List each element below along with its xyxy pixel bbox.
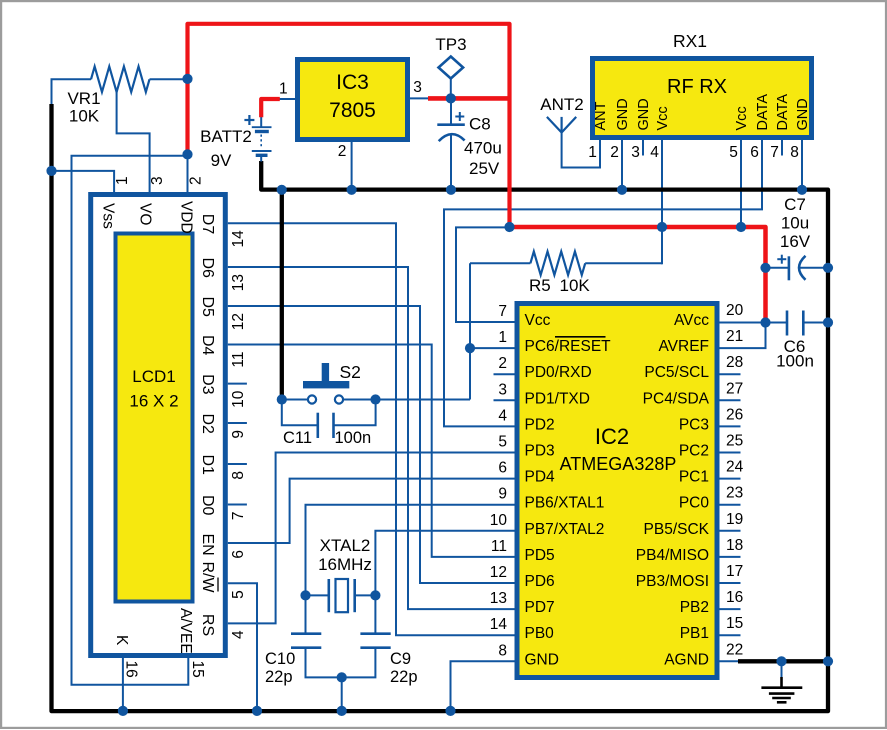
svg-text:3: 3 <box>498 381 507 398</box>
svg-text:4: 4 <box>230 630 247 639</box>
svg-text:PD2: PD2 <box>525 416 555 433</box>
svg-text:GND: GND <box>525 651 559 668</box>
svg-text:16V: 16V <box>780 232 811 251</box>
svg-text:AVcc: AVcc <box>674 312 709 329</box>
wire C10 bottom to junction <box>306 648 342 678</box>
svg-text:16: 16 <box>123 661 140 678</box>
LCD1 outer box <box>91 195 226 656</box>
wire RF RX pin 3 stub <box>642 139 644 156</box>
svg-text:15: 15 <box>726 615 743 632</box>
svg-text:D5: D5 <box>199 297 216 318</box>
ground symbol stem upper (blue) <box>781 661 783 677</box>
wire +5V node to LCD A/VEE pin 15 <box>72 156 189 685</box>
svg-text:RF RX: RF RX <box>667 76 727 98</box>
svg-text:GND: GND <box>636 98 652 130</box>
svg-text:VDD: VDD <box>178 201 195 234</box>
svg-text:Vcc: Vcc <box>525 312 551 329</box>
node LCD VDD / +5V <box>182 149 192 159</box>
svg-text:8: 8 <box>790 144 799 161</box>
svg-text:PC6/RESET: PC6/RESET <box>525 338 612 355</box>
node C7+ <box>760 263 770 273</box>
svg-text:C11: C11 <box>283 429 312 447</box>
svg-text:10K: 10K <box>69 107 100 126</box>
svg-text:ANT: ANT <box>593 101 609 130</box>
wire C8 top lead <box>450 98 452 124</box>
svg-text:13: 13 <box>490 590 507 607</box>
svg-text:3: 3 <box>413 79 422 96</box>
svg-text:3: 3 <box>631 144 640 161</box>
wire IC2 pin 27 PC4/SDA stub <box>720 399 741 401</box>
svg-text:8: 8 <box>498 642 507 659</box>
svg-text:19: 19 <box>726 511 743 528</box>
svg-text:AGND: AGND <box>664 651 709 668</box>
node C6 / GND rail <box>823 317 833 327</box>
node LCD Vss / GND <box>46 166 56 176</box>
+5V red wire: top loop from IC3 output to LCD VDD / VR1 <box>188 24 510 227</box>
wire LCD EN pin 6 to IC2 PD4 pin 6 <box>228 479 515 543</box>
svg-text:C8: C8 <box>469 115 491 134</box>
svg-text:K: K <box>113 635 130 646</box>
potentiometer VR1 <box>91 67 150 93</box>
node VR1 / +5V <box>182 74 192 84</box>
svg-text:PB0: PB0 <box>525 625 555 642</box>
wire crystal cap junction to ground bus <box>341 677 343 711</box>
svg-text:12: 12 <box>490 564 507 581</box>
svg-text:IC2: IC2 <box>595 424 629 449</box>
node C8 / GND bus <box>446 185 456 195</box>
svg-text:C10: C10 <box>265 650 295 668</box>
svg-text:14: 14 <box>490 616 508 633</box>
svg-text:5: 5 <box>230 590 247 599</box>
+5V red wire: IC3 pin 3 to TP3 node <box>428 96 512 101</box>
svg-text:PC3: PC3 <box>679 416 709 433</box>
test point TP3 diamond <box>439 57 464 79</box>
node RF pin2 / GND bus <box>617 185 627 195</box>
RX1 RF RX receiver module box <box>593 59 812 138</box>
svg-text:10u: 10u <box>781 214 809 233</box>
wire IC2 pin 20 AVcc to +5V <box>720 322 766 324</box>
svg-text:17: 17 <box>726 563 743 580</box>
svg-text:PD0/RXD: PD0/RXD <box>525 364 592 381</box>
svg-text:26: 26 <box>726 406 743 423</box>
wire S2 right contact to RESET junction <box>376 399 471 401</box>
svg-text:25V: 25V <box>469 159 500 178</box>
wire LCD D4 pin 11 to IC2 PD5 pin 11 <box>228 345 515 557</box>
capacitor C7 10u polarized <box>788 256 791 280</box>
wire IC2 pin 1 PC6/RESET stub to junction <box>470 347 515 349</box>
node RF pin8 / GND bus <box>797 185 807 195</box>
wire S2 left contact to ground bus (black) <box>280 190 284 400</box>
svg-text:PB6/XTAL1: PB6/XTAL1 <box>525 495 605 512</box>
svg-text:5: 5 <box>498 434 507 451</box>
svg-text:PD5: PD5 <box>525 547 555 564</box>
svg-text:13: 13 <box>230 274 247 291</box>
svg-text:D2: D2 <box>199 414 216 435</box>
node AGND / GND rail <box>823 656 833 666</box>
capacitor C11 100n <box>282 400 318 426</box>
wire LCD D3 pin 10 stub <box>228 383 247 385</box>
svg-text:VO: VO <box>137 203 154 225</box>
node IC2 GND / GND bus <box>445 706 455 716</box>
svg-text:11: 11 <box>491 538 507 555</box>
capacitor C9 22p <box>360 632 390 635</box>
svg-text:D1: D1 <box>199 455 216 476</box>
svg-text:5: 5 <box>729 144 738 161</box>
svg-text:BATT2: BATT2 <box>200 127 252 146</box>
svg-text:16: 16 <box>726 589 743 606</box>
svg-text:12: 12 <box>230 313 247 330</box>
svg-text:7: 7 <box>230 512 247 521</box>
svg-text:16 X 2: 16 X 2 <box>129 392 178 411</box>
ground symbol <box>780 677 783 688</box>
wire IC2 pin 8 GND to ground bus <box>451 661 515 711</box>
IC3 7805 voltage regulator box <box>298 60 408 140</box>
svg-text:PC4/SDA: PC4/SDA <box>643 390 710 407</box>
svg-text:Vcc: Vcc <box>655 106 671 130</box>
wire LCD D5 pin 12 to IC2 PD6 pin 12 <box>228 306 515 583</box>
svg-text:23: 23 <box>726 485 743 502</box>
svg-text:2: 2 <box>498 355 507 372</box>
wire LCD RW pin 5 to ground bus <box>228 583 257 711</box>
svg-text:PB2: PB2 <box>680 599 709 616</box>
svg-text:D7: D7 <box>199 214 216 235</box>
svg-text:9: 9 <box>230 430 247 439</box>
svg-text:18: 18 <box>726 537 743 554</box>
wire C6 right lead to ground rail <box>803 322 827 324</box>
svg-text:PB1: PB1 <box>680 625 709 642</box>
wire IC2 pin 22 AGND stub <box>720 660 741 662</box>
+5V red wire: horizontal rail to C7 and AVcc <box>510 227 766 323</box>
wire IC2 pin 9 PB6/XTAL1 to crystal left <box>306 505 515 634</box>
svg-text:AVREF: AVREF <box>658 338 709 355</box>
svg-text:1: 1 <box>588 144 597 161</box>
LCD1 inner display area <box>116 234 193 602</box>
svg-text:S2: S2 <box>340 362 361 382</box>
wire RF RX pin 4 Vcc down to R5 right wire <box>661 139 663 264</box>
wire IC2 pin 25 PC2 stub <box>720 452 741 454</box>
svg-text:RX1: RX1 <box>673 31 707 51</box>
wire RF RX pin 6 DATA to IC2 PD2 pin 4 <box>444 139 762 426</box>
svg-text:2: 2 <box>610 144 619 161</box>
wire IC2 pin 19 PB5/SCK stub <box>720 530 741 532</box>
svg-text:4: 4 <box>650 144 659 161</box>
svg-text:A/VEE: A/VEE <box>177 608 194 654</box>
IC2 ATMEGA328P box <box>517 304 717 678</box>
wire IC2 pin 10 PB7/XTAL2 to crystal right <box>375 531 514 634</box>
svg-text:LCD1: LCD1 <box>132 367 175 386</box>
svg-text:4: 4 <box>498 407 507 424</box>
svg-text:10: 10 <box>230 390 247 408</box>
svg-text:22p: 22p <box>265 668 293 686</box>
svg-text:GND: GND <box>615 98 631 130</box>
node S2 / GND bus <box>277 185 287 195</box>
svg-text:21: 21 <box>726 328 743 345</box>
node C7- / GND rail <box>823 263 833 273</box>
pushbutton switch S2 <box>308 395 316 403</box>
svg-text:PD4: PD4 <box>525 469 556 486</box>
wire RF RX pin 7 stub <box>781 139 783 156</box>
svg-text:16MHz: 16MHz <box>318 555 372 574</box>
wire LCD RS pin 4 to IC2 PD3 pin 5 <box>228 453 515 624</box>
svg-text:6: 6 <box>750 144 759 161</box>
svg-text:ATMEGA328P: ATMEGA328P <box>560 454 677 474</box>
wire IC2 pin 17 PB3/MOSI stub <box>720 582 741 584</box>
svg-text:10: 10 <box>490 512 508 529</box>
svg-text:GND: GND <box>795 98 811 130</box>
svg-text:10K: 10K <box>560 276 591 295</box>
wire IC2 pin 21 AVREF to AVcc node <box>720 323 766 349</box>
svg-text:TP3: TP3 <box>435 35 466 54</box>
battery plus sign <box>244 119 254 121</box>
svg-text:7805: 7805 <box>329 99 376 122</box>
svg-text:DATA: DATA <box>775 94 791 131</box>
svg-text:PD1/TXD: PD1/TXD <box>525 390 590 407</box>
wire TP3 stem <box>450 79 452 99</box>
wire IC2 pin 16 PB2 stub <box>720 608 741 610</box>
svg-text:14: 14 <box>230 230 247 248</box>
svg-text:9V: 9V <box>211 151 232 170</box>
svg-text:Vss: Vss <box>100 203 117 229</box>
node IC3 pin2 / GND bus <box>347 185 357 195</box>
svg-text:ANT2: ANT2 <box>540 95 583 114</box>
svg-text:EN: EN <box>199 534 216 556</box>
svg-text:Vcc: Vcc <box>734 106 750 130</box>
wire VR1 left terminal to ground rail <box>52 79 92 106</box>
svg-text:C7: C7 <box>784 195 806 214</box>
node RF pin5 Vcc <box>736 222 746 232</box>
svg-text:6: 6 <box>230 550 247 559</box>
svg-text:PC1: PC1 <box>679 469 709 486</box>
svg-text:9: 9 <box>498 486 507 503</box>
wire LCD D7 pin 14 to IC2 PB0 pin 14 <box>228 223 515 635</box>
wire RF RX pin 2 GND to ground bus <box>621 139 623 190</box>
svg-text:D3: D3 <box>199 374 216 395</box>
node AVcc / +5V <box>760 317 770 327</box>
wire IC2 pin 23 PC0 stub <box>720 504 741 506</box>
svg-text:28: 28 <box>726 354 743 371</box>
wire battery + to IC3 pin 1 (blue part) <box>279 98 296 100</box>
node +5V / IC2 Vcc <box>504 222 514 232</box>
svg-text:100n: 100n <box>776 352 814 371</box>
svg-text:PC2: PC2 <box>679 443 709 460</box>
svg-text:2: 2 <box>338 143 347 160</box>
svg-text:PD3: PD3 <box>525 443 555 460</box>
wire C7 left lead <box>766 267 789 269</box>
wire antenna to RF RX pin 1 <box>562 133 600 168</box>
wire VR1 wiper to LCD VO pin 3 <box>117 91 150 192</box>
wire R5 left lead <box>470 262 530 264</box>
wire IC3 pin 2 to ground bus <box>351 141 353 190</box>
svg-text:22: 22 <box>726 641 743 658</box>
wire C7 right lead to ground rail <box>800 267 828 269</box>
node C10/C9 junction <box>337 672 347 682</box>
svg-text:1: 1 <box>279 81 288 98</box>
svg-text:100n: 100n <box>335 429 372 447</box>
svg-text:27: 27 <box>726 380 743 397</box>
svg-text:C9: C9 <box>390 650 411 668</box>
svg-text:XTAL2: XTAL2 <box>320 536 371 555</box>
svg-text:8: 8 <box>230 471 247 480</box>
svg-text:RS: RS <box>199 614 216 636</box>
resistor R5 <box>530 252 585 276</box>
svg-text:22p: 22p <box>390 668 418 686</box>
svg-text:PD7: PD7 <box>525 599 555 616</box>
battery BATT2 <box>252 126 272 128</box>
svg-text:470u: 470u <box>464 139 502 158</box>
red wire: battery + to IC3 pin 1 <box>261 99 280 117</box>
svg-text:PB3/MOSI: PB3/MOSI <box>636 573 709 590</box>
antenna ANT2 <box>547 117 576 133</box>
svg-text:24: 24 <box>726 459 744 476</box>
capacitor C10 22p <box>291 632 321 635</box>
svg-text:DATA: DATA <box>755 94 771 131</box>
svg-text:7: 7 <box>498 303 507 320</box>
wire IC2 pin 3 PD1/TXD stub <box>494 399 515 401</box>
svg-text:1: 1 <box>498 329 507 346</box>
svg-text:R/W: R/W <box>199 562 216 594</box>
svg-text:PC5/SCL: PC5/SCL <box>644 364 709 381</box>
node crystal left <box>300 590 310 600</box>
svg-text:11: 11 <box>230 352 247 368</box>
svg-text:R5: R5 <box>529 276 551 295</box>
svg-text:PC0: PC0 <box>679 495 710 512</box>
wire IC2 pin 26 PC3 stub <box>720 425 741 427</box>
svg-text:7: 7 <box>770 144 779 161</box>
wire IC2 pin 7 Vcc to +5V junction <box>456 227 515 322</box>
wire VR1 right terminal to +5V node <box>150 78 188 80</box>
wire IC2 pin 18 PB4/MISO stub <box>720 556 741 558</box>
wire IC3 pin 3 output (blue part) <box>409 97 429 99</box>
wire LCD D6 pin 13 to IC2 PD7 pin 13 <box>228 267 515 609</box>
node S2 right contact <box>370 394 380 404</box>
wire IC2 pin 15 PB1 stub <box>720 634 741 636</box>
wire IC2 pin 2 PD0/RXD stub <box>494 373 515 375</box>
wire R5 right lead to Vcc <box>585 262 662 264</box>
wire LCD K pin 16 to ground bus <box>122 658 124 711</box>
svg-text:D4: D4 <box>199 335 216 356</box>
node crystal caps / GND bus <box>337 706 347 716</box>
wire C8 bottom lead to ground bus <box>450 135 452 190</box>
svg-text:PB7/XTAL2: PB7/XTAL2 <box>525 521 605 538</box>
wire +5V node to LCD VDD pin 2 <box>187 154 189 192</box>
svg-text:D0: D0 <box>199 495 216 516</box>
capacitor C8 470u polarized <box>437 123 465 126</box>
wire RF RX pin 8 GND to ground bus <box>801 139 803 190</box>
node RF pin4 Vcc <box>657 222 667 232</box>
svg-text:15: 15 <box>189 661 206 678</box>
wire ground rail to LCD Vss pin 1 <box>52 171 115 192</box>
wire IC2 pin 28 PC5/SCL stub <box>720 373 741 375</box>
capacitor C6 100n <box>786 311 789 336</box>
svg-text:IC3: IC3 <box>336 71 369 94</box>
wire RF RX pin 5 Vcc down to +5V rail <box>740 139 742 227</box>
svg-text:D6: D6 <box>199 258 216 279</box>
svg-text:20: 20 <box>726 302 744 319</box>
svg-text:PB5/SCK: PB5/SCK <box>644 521 710 538</box>
wire IC2 pin 22 AGND to ground rail (black) <box>738 659 828 663</box>
wire battery top stub <box>260 116 262 128</box>
crystal XTAL2 16MHz <box>327 579 330 612</box>
svg-text:PB4/MISO: PB4/MISO <box>636 547 709 564</box>
node LCD RW / GND bus <box>252 706 262 716</box>
wire LCD D0 pin 7 stub <box>228 504 247 506</box>
svg-text:25: 25 <box>726 433 743 450</box>
wire RESET junction vertical (R5 to S2) <box>469 263 471 399</box>
node S2 left contact <box>277 394 287 404</box>
node crystal right <box>370 590 380 600</box>
svg-text:VR1: VR1 <box>67 89 100 108</box>
node RESET junction <box>465 343 475 353</box>
node ground symbol / AGND <box>776 656 786 666</box>
node TP3 / C8 / +5V <box>446 93 456 103</box>
svg-text:PD6: PD6 <box>525 573 555 590</box>
wire C6 left lead <box>766 322 788 324</box>
wire C9 bottom to junction <box>342 648 376 678</box>
ground bus (battery - / top rail / right rail / bottom rail / left rail) <box>52 104 829 711</box>
svg-text:6: 6 <box>498 460 507 477</box>
wire IC2 pin 24 PC1 stub <box>720 478 741 480</box>
svg-text:1: 1 <box>114 176 131 185</box>
wire LCD D1 pin 8 stub <box>228 463 247 465</box>
svg-text:2: 2 <box>188 176 205 185</box>
svg-text:3: 3 <box>149 176 166 185</box>
node LCD K / GND bus <box>118 706 128 716</box>
wire LCD D2 pin 9 stub <box>228 422 247 424</box>
